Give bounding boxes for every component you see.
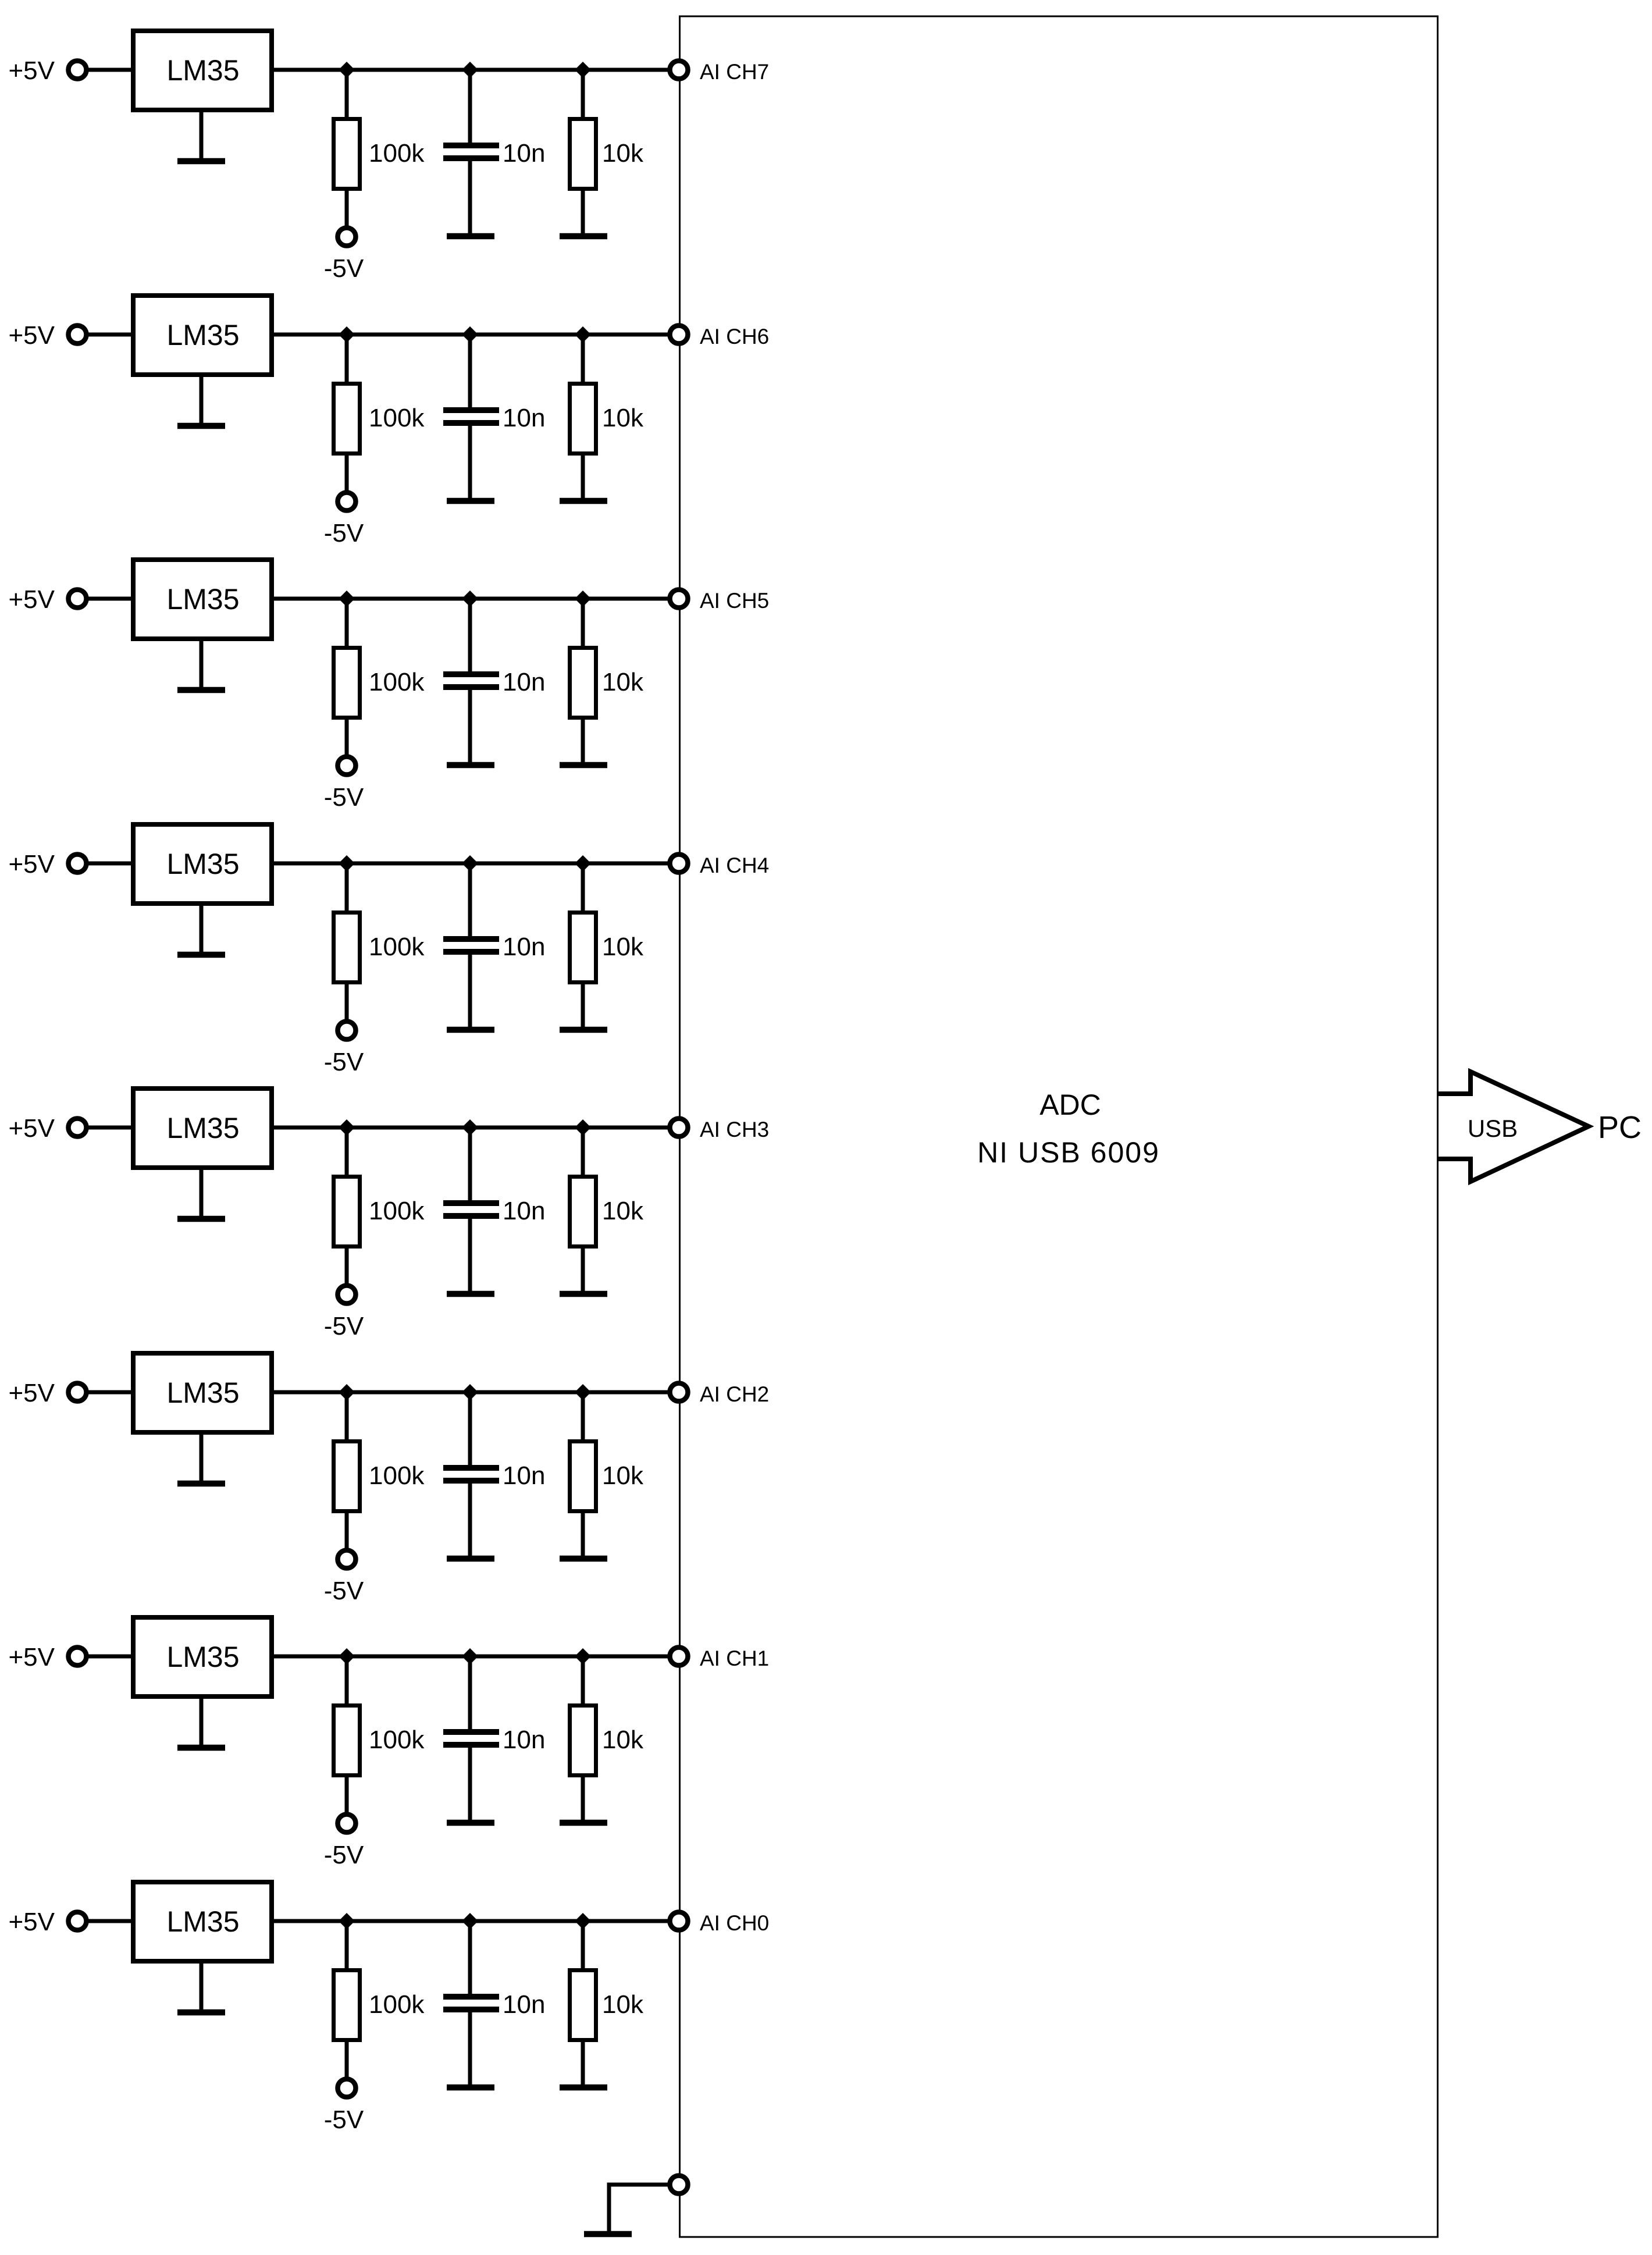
-5V supply terminal row 3: [324, 757, 364, 812]
junction node at capacitor row 8: [462, 1913, 478, 1929]
resistor 10k row 3: [570, 599, 596, 763]
LM35 temperature sensor row 3: [133, 560, 272, 639]
junction node at 100k row 1: [339, 62, 355, 78]
junction node at 100k row 8: [339, 1913, 355, 1929]
svg-text:LM35: LM35: [166, 319, 239, 351]
svg-text:LM35: LM35: [166, 1905, 239, 1938]
LM35 temperature sensor row 4: [133, 824, 272, 904]
resistor 100k row 6: [334, 1392, 360, 1551]
LM35 temperature sensor row 2: [133, 296, 272, 375]
svg-text:LM35: LM35: [166, 1112, 239, 1144]
-5V supply terminal row 8: [324, 2079, 364, 2135]
ground of LM35 row 5: [177, 1168, 225, 1219]
svg-text:AI CH3: AI CH3: [700, 1118, 769, 1141]
wire LM35 output to AI CH7 row 1: [269, 68, 670, 72]
svg-text:100k: 100k: [369, 404, 425, 432]
resistor 100k row 3: [334, 599, 360, 757]
svg-text:+5V: +5V: [8, 585, 55, 614]
+5V supply terminal row 5: [8, 1114, 86, 1143]
svg-text:100k: 100k: [369, 1197, 425, 1225]
junction node at capacitor row 2: [462, 326, 478, 343]
ground of 10k row 1: [560, 233, 607, 240]
LM35 temperature sensor row 5: [133, 1089, 272, 1168]
capacitor 10n row 1: [443, 70, 499, 234]
svg-text:LM35: LM35: [166, 583, 239, 616]
svg-text:AI CH4: AI CH4: [700, 853, 769, 877]
svg-text:+5V: +5V: [8, 321, 55, 350]
wire +5V terminal to LM35 row 8: [87, 1919, 133, 1923]
resistor 10k row 6: [570, 1392, 596, 1556]
junction node at capacitor row 1: [462, 62, 478, 78]
svg-text:+5V: +5V: [8, 1643, 55, 1671]
svg-text:100k: 100k: [369, 933, 425, 961]
svg-text:+5V: +5V: [8, 850, 55, 878]
svg-text:10k: 10k: [602, 933, 644, 961]
ground of capacitor row 3: [447, 762, 494, 769]
resistor 100k row 2: [334, 335, 360, 493]
svg-text:10n: 10n: [503, 139, 545, 168]
ground of LM35 row 2: [177, 375, 225, 426]
svg-text:-5V: -5V: [324, 1841, 364, 1869]
ground of capacitor row 2: [447, 498, 494, 504]
resistor 10k row 8: [570, 1921, 596, 2085]
resistor 100k row 7: [334, 1656, 360, 1815]
resistor 100k row 1: [334, 70, 360, 229]
svg-text:-5V: -5V: [324, 1312, 364, 1340]
resistor 10k row 7: [570, 1656, 596, 1820]
svg-text:10n: 10n: [503, 1726, 545, 1754]
svg-text:10k: 10k: [602, 404, 644, 432]
junction node at 10k row 7: [575, 1648, 591, 1664]
LM35 temperature sensor row 8: [133, 1882, 272, 1961]
svg-text:AI CH7: AI CH7: [700, 60, 769, 84]
ground of LM35 row 6: [177, 1432, 225, 1484]
resistor 10k row 5: [570, 1127, 596, 1292]
junction node at 10k row 3: [575, 591, 591, 607]
svg-text:AI CH2: AI CH2: [700, 1382, 769, 1406]
svg-text:+5V: +5V: [8, 1908, 55, 1936]
-5V supply terminal row 4: [324, 1022, 364, 1077]
AI CH5 input terminal row 3: [670, 590, 688, 608]
AI CH6 input terminal row 2: [670, 326, 688, 344]
svg-text:-5V: -5V: [324, 783, 364, 812]
svg-text:10n: 10n: [503, 404, 545, 432]
svg-text:10n: 10n: [503, 933, 545, 961]
USB arrow to PC: [1438, 1072, 1589, 1182]
wire LM35 output to AI CH6 row 2: [269, 333, 670, 337]
ground of capacitor row 8: [447, 2085, 494, 2091]
+5V supply terminal row 2: [8, 321, 86, 350]
svg-text:10k: 10k: [602, 1197, 644, 1225]
svg-text:AI CH5: AI CH5: [700, 589, 769, 613]
svg-text:PC: PC: [1598, 1110, 1642, 1145]
AI CH2 input terminal row 6: [670, 1383, 688, 1402]
wire +5V terminal to LM35 row 4: [87, 862, 133, 866]
svg-text:USB: USB: [1468, 1115, 1518, 1142]
svg-text:-5V: -5V: [324, 1048, 364, 1076]
capacitor 10n row 2: [443, 335, 499, 499]
ground of 10k row 6: [560, 1556, 607, 1562]
svg-text:LM35: LM35: [166, 54, 239, 87]
svg-text:10k: 10k: [602, 1461, 644, 1490]
ground of LM35 row 1: [177, 110, 225, 161]
junction node at 100k row 7: [339, 1648, 355, 1664]
ground of LM35 row 8: [177, 1961, 225, 2012]
-5V supply terminal row 6: [324, 1550, 364, 1606]
wire LM35 output to AI CH0 row 8: [269, 1919, 670, 1923]
resistor 100k row 8: [334, 1921, 360, 2080]
junction node at 10k row 5: [575, 1119, 591, 1136]
svg-text:-5V: -5V: [324, 519, 364, 547]
svg-text:10n: 10n: [503, 1990, 545, 2019]
junction node at 100k row 5: [339, 1119, 355, 1136]
wire +5V terminal to LM35 row 2: [87, 333, 133, 337]
svg-text:10k: 10k: [602, 1990, 644, 2019]
ground of capacitor row 7: [447, 1820, 494, 1826]
capacitor 10n row 8: [443, 1921, 499, 2085]
junction node at capacitor row 3: [462, 591, 478, 607]
junction node at 10k row 6: [575, 1384, 591, 1400]
AI CH1 input terminal row 7: [670, 1648, 688, 1666]
+5V supply terminal row 8: [8, 1908, 86, 1936]
junction node at 100k row 4: [339, 855, 355, 872]
svg-text:LM35: LM35: [166, 1377, 239, 1409]
svg-text:100k: 100k: [369, 668, 425, 696]
svg-text:100k: 100k: [369, 1990, 425, 2019]
junction node at capacitor row 7: [462, 1648, 478, 1664]
ground of 10k row 2: [560, 498, 607, 504]
wire +5V terminal to LM35 row 7: [87, 1655, 133, 1659]
svg-text:10k: 10k: [602, 1726, 644, 1754]
svg-text:AI CH0: AI CH0: [700, 1911, 769, 1935]
svg-text:+5V: +5V: [8, 56, 55, 85]
AI CH0 input terminal row 8: [670, 1912, 688, 1930]
junction node at 100k row 2: [339, 326, 355, 343]
ground terminal of ADC: [670, 2176, 688, 2194]
wire LM35 output to AI CH1 row 7: [269, 1655, 670, 1659]
junction node at capacitor row 6: [462, 1384, 478, 1400]
+5V supply terminal row 4: [8, 850, 86, 878]
capacitor 10n row 4: [443, 863, 499, 1027]
LM35 temperature sensor row 7: [133, 1617, 272, 1696]
wire LM35 output to AI CH3 row 5: [269, 1126, 670, 1130]
svg-text:10n: 10n: [503, 668, 545, 696]
ground of LM35 row 4: [177, 904, 225, 955]
ground of capacitor row 1: [447, 233, 494, 240]
junction node at capacitor row 4: [462, 855, 478, 872]
-5V supply terminal row 5: [324, 1286, 364, 1341]
LM35 temperature sensor row 1: [133, 31, 272, 110]
svg-text:AI CH6: AI CH6: [700, 325, 769, 348]
wire +5V terminal to LM35 row 3: [87, 597, 133, 601]
svg-text:-5V: -5V: [324, 1577, 364, 1605]
svg-text:10k: 10k: [602, 668, 644, 696]
ground of capacitor row 5: [447, 1291, 494, 1297]
-5V supply terminal row 7: [324, 1815, 364, 1870]
svg-text:AI CH1: AI CH1: [700, 1646, 769, 1670]
resistor 10k row 2: [570, 335, 596, 499]
-5V supply terminal row 2: [324, 493, 364, 548]
svg-text:+5V: +5V: [8, 1379, 55, 1407]
capacitor 10n row 3: [443, 599, 499, 763]
junction node at 10k row 8: [575, 1913, 591, 1929]
ground of LM35 row 3: [177, 639, 225, 690]
svg-text:LM35: LM35: [166, 1641, 239, 1673]
wire +5V terminal to LM35 row 1: [87, 68, 133, 72]
resistor 10k row 1: [570, 70, 596, 234]
ground of 10k row 7: [560, 1820, 607, 1826]
resistor 100k row 5: [334, 1127, 360, 1286]
wire LM35 output to AI CH2 row 6: [269, 1390, 670, 1395]
capacitor 10n row 5: [443, 1127, 499, 1292]
LM35 temperature sensor row 6: [133, 1353, 272, 1432]
capacitor 10n row 6: [443, 1392, 499, 1556]
wire ground terminal to ground symbol: [609, 2185, 668, 2234]
ground of 10k row 3: [560, 762, 607, 769]
ground of capacitor row 4: [447, 1027, 494, 1033]
svg-text:100k: 100k: [369, 139, 425, 168]
svg-text:10n: 10n: [503, 1197, 545, 1225]
svg-text:+5V: +5V: [8, 1114, 55, 1143]
svg-text:10n: 10n: [503, 1461, 545, 1490]
ground of 10k row 5: [560, 1291, 607, 1297]
-5V supply terminal row 1: [324, 228, 364, 283]
resistor 100k row 4: [334, 863, 360, 1022]
svg-text:ADC: ADC: [1039, 1089, 1101, 1121]
junction node at 10k row 4: [575, 855, 591, 872]
wire LM35 output to AI CH4 row 4: [269, 862, 670, 866]
wire +5V terminal to LM35 row 6: [87, 1390, 133, 1395]
capacitor 10n row 7: [443, 1656, 499, 1820]
resistor 10k row 4: [570, 863, 596, 1027]
ground of 10k row 8: [560, 2085, 607, 2091]
AI CH7 input terminal row 1: [670, 61, 688, 79]
svg-text:-5V: -5V: [324, 254, 364, 283]
ground of 10k row 4: [560, 1027, 607, 1033]
AI CH3 input terminal row 5: [670, 1119, 688, 1137]
junction node at 10k row 2: [575, 326, 591, 343]
svg-text:-5V: -5V: [324, 2105, 364, 2134]
svg-text:10k: 10k: [602, 139, 644, 168]
wire +5V terminal to LM35 row 5: [87, 1126, 133, 1130]
ground of LM35 row 7: [177, 1696, 225, 1748]
+5V supply terminal row 3: [8, 585, 86, 614]
+5V supply terminal row 1: [8, 56, 86, 85]
AI CH4 input terminal row 4: [670, 855, 688, 873]
junction node at 100k row 3: [339, 591, 355, 607]
svg-text:100k: 100k: [369, 1726, 425, 1754]
svg-text:NI USB 6009: NI USB 6009: [977, 1136, 1160, 1169]
ADC NI USB 6009 block U1: [680, 16, 1438, 2237]
junction node at capacitor row 5: [462, 1119, 478, 1136]
+5V supply terminal row 6: [8, 1379, 86, 1407]
ground of capacitor row 6: [447, 1556, 494, 1562]
junction node at 100k row 6: [339, 1384, 355, 1400]
junction node at 10k row 1: [575, 62, 591, 78]
svg-text:100k: 100k: [369, 1461, 425, 1490]
svg-text:LM35: LM35: [166, 848, 239, 880]
wire LM35 output to AI CH5 row 3: [269, 597, 670, 601]
+5V supply terminal row 7: [8, 1643, 86, 1671]
ground symbol at ADC: [584, 2231, 632, 2238]
